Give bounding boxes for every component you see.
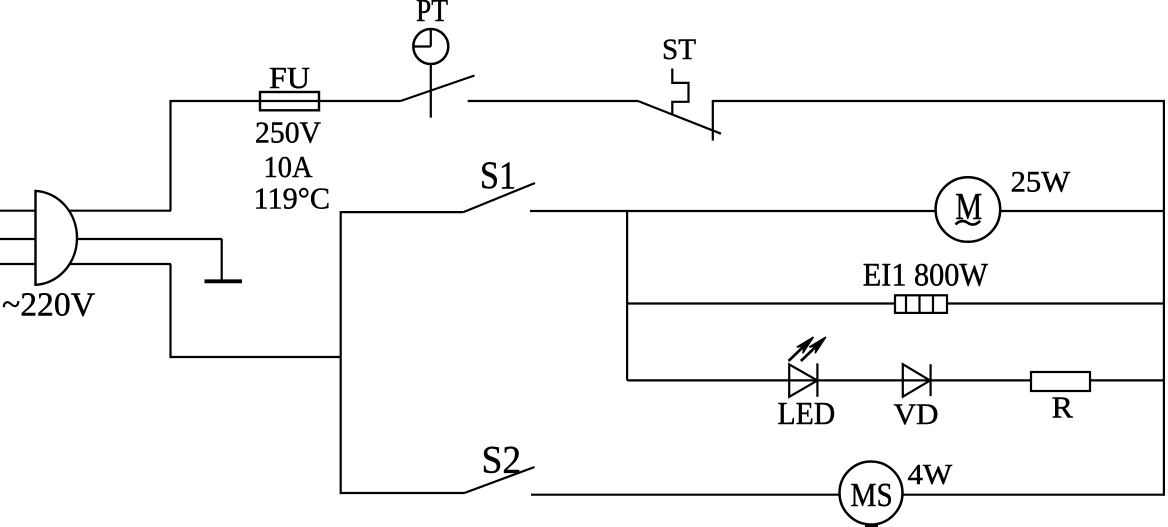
label 10A [264,150,313,184]
label S1 [480,154,516,197]
wire right bus (common return) [1163,100,1165,496]
svg-text:119°C: 119°C [254,181,331,215]
wire M to right bus [1000,210,1164,212]
wire MS bottom stub (clipped at image edge) [865,525,878,527]
resistor R [1031,372,1090,391]
heating element EI1 (800W) [895,295,947,313]
svg-text:MS: MS [851,477,893,514]
wire S2 row left [341,492,465,494]
wire S1 row left [341,211,464,213]
label MS [851,477,893,514]
label ST [662,34,696,66]
svg-text:PT: PT [416,0,448,28]
switch PT contact (blade and actuator stem) [401,64,475,118]
svg-text:25W: 25W [1011,166,1071,199]
svg-text:250V: 250V [255,116,321,150]
wire ST to right bus [713,100,1165,102]
wire MS to right bus [903,494,1166,496]
wire S2 to motor MS [531,494,840,496]
label S2 [482,439,522,482]
svg-text:S2: S2 [482,439,522,482]
wire N drop (x=171 down) [169,264,171,358]
wire LED row [627,379,1031,381]
label M tilde [956,221,981,225]
svg-text:R: R [1052,389,1074,424]
label M [955,186,982,228]
wire EI1 row left [627,302,895,304]
wire PT to ST [468,100,638,102]
ground (earth bar) [205,279,243,283]
wire switch column (x=341, S1 row to S2 row) [340,211,342,494]
label 119°C [254,181,331,215]
svg-text:VD: VD [894,398,939,431]
motor MS (oscillating motor, 4W) [840,462,903,525]
LED D1 (indicator with emission arrows) [789,337,826,397]
svg-text:EI1 800W: EI1 800W [863,258,989,294]
label PT [416,0,448,28]
diode VD [903,364,931,397]
fuse FU [260,92,319,110]
label VD [894,398,939,431]
wire N prong (bottom prong of plug) [0,263,171,265]
label FU [269,60,310,95]
switch S2 (blade) [464,467,534,493]
svg-text:FU: FU [269,60,310,95]
wire N feed to switch column [171,356,342,358]
label EI1 800W [863,258,989,294]
svg-text:ST: ST [662,34,696,66]
wire EI1 to right bus [947,302,1164,304]
wire PE prong (middle prong of plug to ground drop) [0,238,222,240]
label 250V [255,116,321,150]
wire ground drop (middle prong down) [221,239,223,280]
svg-text:LED: LED [778,395,836,431]
svg-text:~220V: ~220V [2,286,95,323]
switch ST (thermal cutout, normally closed) [638,69,721,141]
switch S1 (blade) [463,183,535,212]
plug XP (~220V mains plug body) [36,191,77,285]
thermostat PT (circle with quarter lines) [413,29,448,64]
label LED [778,395,836,431]
label 25W [1011,166,1071,199]
wire R to right bus [1090,379,1164,381]
wire S1 to motor M row [530,210,936,212]
svg-text:10A: 10A [264,150,313,184]
wire heater branch column (x=627) [626,211,628,380]
label ~220V [2,286,95,323]
svg-text:4W: 4W [908,459,954,491]
svg-text:S1: S1 [480,154,516,197]
motor M (fan motor, 25W) [936,177,1001,242]
label R [1052,389,1074,424]
wire L prong (top prong of plug to vertical riser) [0,210,171,212]
wire top row left (riser through fuse to PT switch) [171,100,401,102]
wire riser L (x=171 up to fuse row) [169,100,171,211]
label 4W [908,459,954,491]
